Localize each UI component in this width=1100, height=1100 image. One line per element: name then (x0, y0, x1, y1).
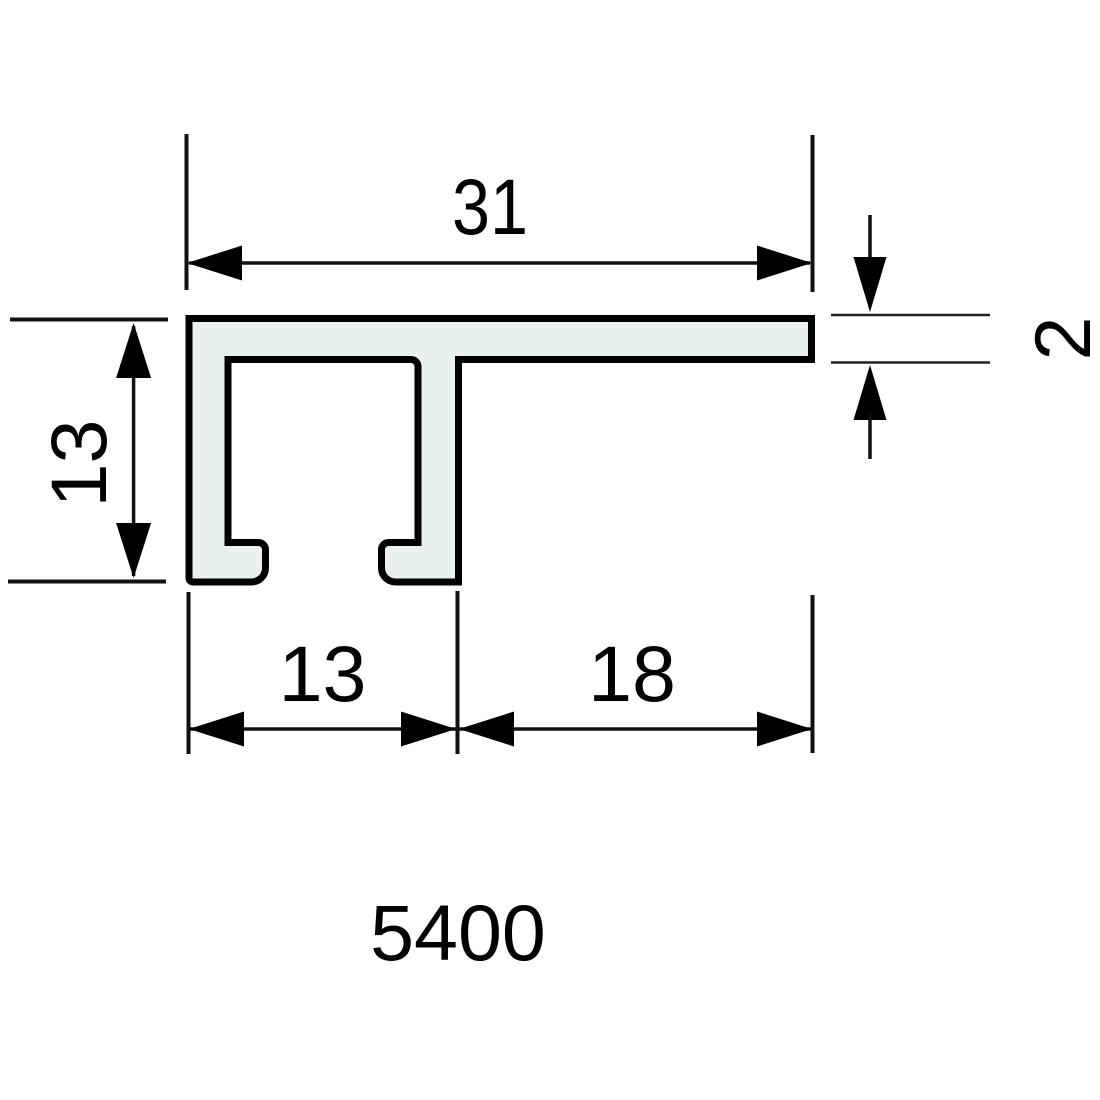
svg-text:13: 13 (279, 629, 367, 718)
dim 31: right extension line (811, 135, 815, 292)
svg-text:5400: 5400 (370, 888, 546, 977)
dim 31: left arrowhead (187, 246, 242, 281)
dim 31: right arrowhead (757, 246, 812, 281)
dim 13 bottom: right arrowhead (401, 712, 456, 747)
dim 13 left: bottom extension line (8, 580, 166, 584)
dim 18 bottom: right arrowhead (757, 712, 812, 747)
dim 31: left extension line (185, 134, 189, 290)
dim 13 left: arrow line (132, 326, 136, 576)
svg-text:31: 31 (452, 162, 528, 251)
svg-text:18: 18 (588, 629, 676, 718)
dim 13 bottom: left arrowhead (189, 712, 244, 747)
dim 13 left: top extension line (10, 318, 168, 322)
svg-text:2: 2 (1018, 317, 1100, 361)
dim 2: upper arrowhead (down) (854, 257, 887, 312)
dim 2: lower arrowhead (up) (854, 365, 887, 420)
dim 18 bottom: left arrowhead (459, 712, 514, 747)
bottom dims: right extension line (811, 595, 815, 753)
dim 13 left: bottom arrowhead (down) (116, 523, 151, 578)
dim 2: lower extension line (831, 361, 990, 364)
svg-text:13: 13 (34, 420, 123, 508)
dim 2: lower arrow line (868, 415, 872, 459)
dim 2: upper arrow line (868, 215, 872, 262)
bottom dims: dimension line (190, 727, 811, 731)
bottom dims: left extension line (187, 592, 191, 754)
bottom dims: middle extension line (456, 591, 460, 754)
dim 13 left: top arrowhead (up) (116, 323, 151, 378)
dim 2: upper extension line (831, 314, 990, 317)
dim 31: dimension line (189, 261, 810, 265)
profile 5400 cross-section (189, 319, 812, 583)
